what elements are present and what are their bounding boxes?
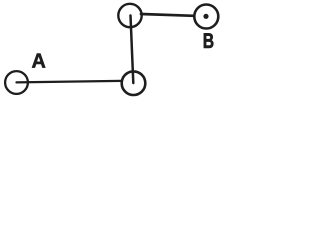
wire top node to bottom node: [131, 16, 134, 84]
wire top node to node B: [141, 14, 194, 16]
node B circle: [194, 5, 218, 29]
bottom node circle: [122, 71, 146, 95]
label A: [32, 53, 45, 67]
wire node A to bottom node: [17, 81, 122, 83]
node B center dot: [203, 14, 208, 19]
node A circle: [5, 71, 28, 94]
label B: [204, 33, 214, 48]
top node circle: [118, 4, 141, 27]
